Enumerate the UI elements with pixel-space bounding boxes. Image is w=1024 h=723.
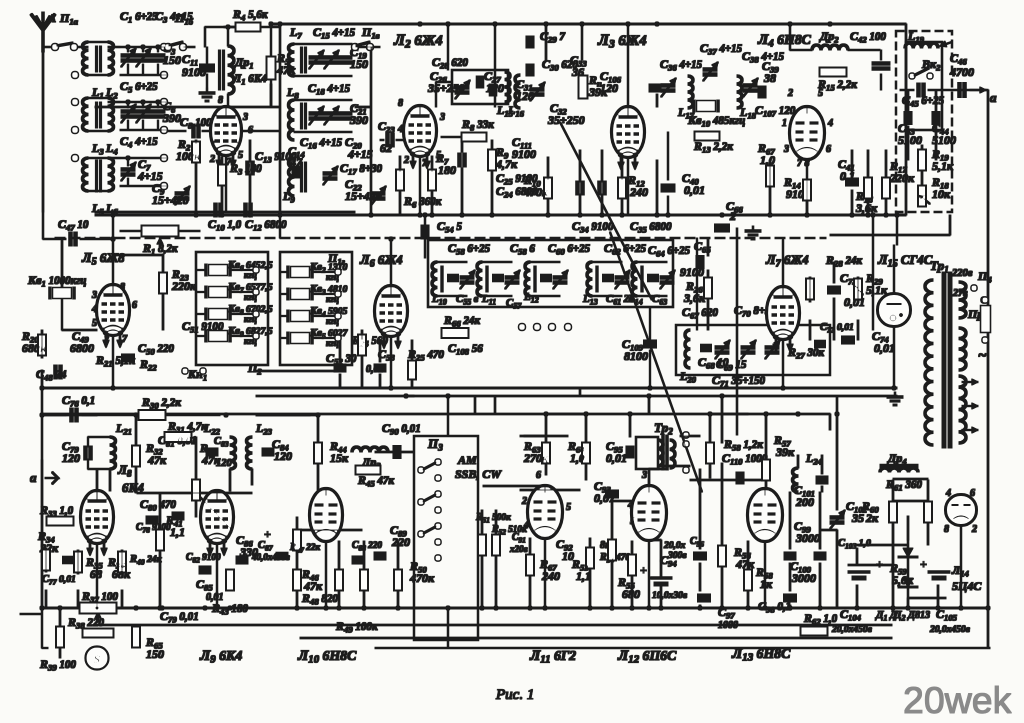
capacitor C52 [334, 366, 346, 371]
label R7 180 [435, 151, 449, 167]
wire [88, 157, 108, 159]
junction [278, 213, 282, 217]
svg-text:5,1к: 5,1к [932, 159, 954, 173]
junction [134, 606, 138, 610]
label Rп 39к [588, 73, 602, 89]
terminal [335, 269, 340, 274]
label R62 1,0 [803, 611, 838, 627]
wire [230, 335, 253, 337]
wire [656, 94, 658, 107]
label R63v [523, 451, 549, 465]
wire [544, 538, 546, 608]
capacitor C23 [388, 133, 393, 147]
resistor R67b [527, 555, 534, 575]
label C85 0,01 [196, 577, 213, 593]
capacitor C77 [63, 558, 74, 562]
label Кв1 1000кгц [27, 273, 86, 289]
terminal [335, 335, 340, 340]
svg-text:35÷250: 35÷250 [427, 81, 465, 95]
label C14v [289, 155, 303, 169]
coil L5 [83, 158, 89, 191]
capacitor C85 [199, 568, 211, 573]
svg-text:C42 100: C42 100 [850, 29, 886, 45]
terminal [435, 459, 440, 464]
svg-text:R39 100: R39 100 [39, 657, 76, 673]
wire [680, 435, 700, 437]
wire [41, 330, 43, 358]
resistor R44 [315, 443, 322, 463]
resistor R30 [139, 411, 165, 420]
junction [324, 606, 328, 610]
wire [927, 480, 929, 501]
svg-text:3,6к: 3,6к [683, 291, 706, 305]
label C82 9100 [186, 552, 221, 565]
label C109 8100 [622, 337, 644, 353]
svg-text:5Ц4С: 5Ц4С [952, 579, 982, 593]
junction [278, 22, 282, 26]
wire [379, 340, 381, 362]
label C46v [949, 65, 974, 79]
wire [195, 162, 197, 215]
junction [95, 606, 99, 610]
label C50 220 [138, 341, 174, 357]
capacitor C110 [738, 472, 743, 484]
wire [399, 190, 401, 215]
label кгц2 3 [326, 294, 339, 304]
label L21 [115, 421, 132, 437]
svg-text:390: 390 [349, 113, 368, 127]
junction [788, 22, 792, 26]
capacitor C81 [172, 514, 184, 519]
label Л4 6Н8С [757, 32, 812, 50]
label C28 620 [432, 55, 468, 71]
junction [871, 213, 875, 217]
resistor R36 [119, 552, 126, 572]
svg-text:5: 5 [818, 88, 823, 99]
resistor R57 [763, 460, 770, 480]
resistor R18 [918, 186, 930, 206]
junction [40, 413, 44, 417]
svg-text:4: 4 [397, 124, 403, 135]
label R1 8,2к [142, 241, 178, 257]
svg-text:Л10 6Н8С: Л10 6Н8С [297, 648, 357, 666]
box quartz bank 2 [280, 252, 352, 365]
wire [80, 238, 113, 240]
junction [746, 606, 750, 610]
resistor R24 [359, 335, 366, 355]
label L18 [739, 105, 757, 121]
resistor Rп [579, 76, 587, 98]
junction [528, 606, 532, 610]
label Кв10 485кгц [687, 113, 745, 129]
wire [662, 465, 690, 467]
svg-text:220к: 220к [171, 279, 197, 293]
label R32v [147, 453, 167, 467]
svg-text:20,0х: 20,0х [663, 541, 686, 551]
label Л12 6П6С bottom [617, 648, 677, 666]
capacitor C40 [661, 186, 675, 191]
box IF1 tank [452, 70, 508, 104]
label C32 35÷250 [550, 101, 567, 117]
label Л7 6Ж4 [765, 253, 809, 270]
svg-text:120: 120 [62, 451, 80, 465]
junction [580, 22, 584, 26]
ground top right [887, 392, 903, 405]
label C93 0,07 [594, 479, 611, 495]
junction [986, 606, 990, 610]
svg-text:C67 620: C67 620 [682, 305, 718, 321]
label R22 100к [139, 357, 157, 373]
svg-text:910: 910 [786, 187, 804, 201]
wire [42, 212, 44, 239]
label R46 47к [301, 567, 319, 583]
label C92v [562, 549, 574, 563]
svg-text:680: 680 [622, 587, 640, 601]
wire [667, 196, 669, 215]
label C97 1000 [718, 605, 735, 621]
wire [88, 130, 108, 132]
label C37 4÷15 [700, 41, 742, 57]
label R53 1,1 [571, 557, 589, 573]
label Кн1 [187, 367, 207, 383]
label Д1 Д2 Д813 [875, 609, 898, 623]
label C101 200 [794, 483, 815, 499]
label C39v [763, 71, 776, 85]
switch Вк2 blade [913, 68, 929, 76]
svg-text:38: 38 [763, 71, 776, 85]
switch П1б blade [168, 42, 183, 46]
label L16 [507, 103, 525, 119]
svg-text:1,0: 1,0 [760, 153, 775, 167]
junction [389, 386, 393, 390]
svg-text:3: 3 [242, 112, 248, 123]
label R16 3,6к [855, 189, 873, 205]
label R67 240 [539, 557, 557, 573]
label R2 100кv [176, 149, 201, 163]
terminal [565, 324, 571, 330]
svg-text:Кв1 1000кгц: Кв1 1000кгц [27, 273, 86, 289]
svg-text:C17 8÷30: C17 8÷30 [340, 161, 382, 177]
label C33v [571, 65, 584, 79]
wire [297, 529, 362, 531]
wire [520, 435, 568, 437]
svg-text:C81 0,01: C81 0,01 [158, 433, 197, 449]
junction [160, 606, 164, 610]
wire [893, 500, 928, 502]
label C26v [427, 81, 465, 95]
label Кв6 6452,5кгц [227, 260, 273, 273]
wire [77, 550, 79, 574]
label C83v [216, 458, 233, 469]
junction [446, 22, 450, 26]
svg-text:R8 33к: R8 33к [461, 117, 494, 133]
wire [447, 24, 449, 70]
label pin8 Л14 [944, 524, 949, 535]
wire [142, 47, 144, 52]
junction [316, 413, 320, 417]
label C64 6÷25 [648, 243, 690, 259]
coil L15 [505, 72, 510, 102]
wire [312, 315, 335, 317]
label Кв8 6702,5кгц [227, 304, 273, 317]
wire [836, 530, 838, 608]
wire [59, 608, 61, 627]
svg-text:20,0х450в: 20,0х450в [831, 625, 873, 635]
svg-text:8: 8 [398, 98, 403, 109]
label Л9 6К4 bottom [199, 648, 242, 666]
wire input box bottom [95, 211, 355, 213]
label Л5 6Ж8 [81, 251, 125, 268]
label Кв7 6577,5кгц [227, 282, 273, 295]
wire [61, 298, 63, 330]
label R12 240 [627, 173, 645, 189]
wire [280, 337, 288, 339]
wire [411, 379, 413, 388]
terminal [435, 539, 440, 544]
junction [446, 394, 450, 398]
label R6 360к [403, 194, 442, 210]
label R21 5,1к [95, 353, 135, 369]
label R48 820 [301, 591, 338, 607]
label tilde [978, 348, 987, 364]
terminal [435, 475, 440, 480]
wire [867, 200, 869, 215]
capacitor C72 [815, 342, 826, 346]
label C103 1,0 [838, 538, 871, 551]
coil L1 [83, 42, 89, 75]
wire [589, 538, 591, 548]
svg-text:4: 4 [945, 488, 951, 499]
junction [768, 213, 772, 217]
label C25 9100 [496, 171, 538, 187]
wire right top rail [905, 24, 907, 215]
junction [544, 412, 548, 416]
capacitor C100 [814, 554, 826, 559]
svg-text:3: 3 [91, 290, 97, 301]
label C79 120v [62, 451, 80, 465]
capacitor C101 [816, 478, 828, 483]
label C7 4÷15 [138, 157, 151, 173]
resistor R49res [361, 570, 368, 590]
svg-text:S: S [94, 652, 101, 666]
coil L21 [110, 437, 116, 469]
terminal [161, 72, 167, 78]
label R14 910 [783, 175, 801, 191]
label C94 10,0х30в [660, 553, 677, 569]
terminal [253, 311, 258, 316]
label R9 4,7кv [495, 157, 518, 171]
wire L19 arrow [940, 41, 952, 47]
trimmer C15a [309, 50, 324, 69]
wire bottom bus 4 [375, 647, 990, 649]
label pin2 Л2 [403, 155, 409, 166]
svg-text:2: 2 [521, 496, 527, 507]
svg-text:R3 180: R3 180 [229, 161, 262, 177]
svg-text:20,0х450в: 20,0х450в [929, 625, 971, 635]
junction [224, 413, 228, 417]
svg-text:C80 470: C80 470 [140, 497, 176, 513]
svg-text:C18 4÷15: C18 4÷15 [308, 81, 350, 97]
label R64v [570, 451, 585, 465]
wire [896, 215, 898, 245]
label C77 0,01 [42, 574, 76, 587]
label C100 3000 [790, 559, 812, 575]
coil L3 [83, 98, 89, 131]
label R67 240v [541, 569, 560, 583]
wire [312, 293, 335, 295]
terminal [161, 99, 167, 105]
wire [857, 544, 908, 546]
label C74 0,01 [872, 329, 889, 345]
terminal [72, 155, 78, 161]
junction [544, 22, 548, 26]
label R2 100к [177, 137, 191, 153]
wire [296, 517, 298, 530]
capacitor C39 [760, 86, 765, 98]
svg-text:47к: 47к [201, 453, 221, 467]
wire [721, 566, 723, 608]
wire [441, 136, 462, 138]
quartz Кв3 [288, 288, 312, 300]
wire [660, 584, 662, 608]
wire [937, 585, 939, 608]
label C108 56 [448, 341, 483, 357]
capacitor C83 [206, 450, 218, 455]
label C110 1000 [722, 451, 768, 467]
junction [666, 213, 670, 217]
wire [880, 50, 882, 60]
wire [59, 648, 61, 658]
label R33 1,0 [39, 503, 74, 519]
label pin2 Л11 [521, 496, 527, 507]
wire [43, 238, 66, 240]
label pin6 Л4 [826, 144, 831, 155]
wire [113, 254, 163, 256]
wire top HT bus [270, 23, 906, 25]
wire bus B3 [42, 413, 830, 415]
junction [111, 213, 115, 217]
label C41v [840, 169, 855, 183]
svg-text:3: 3 [641, 470, 647, 481]
label pin1 Л4 [782, 118, 787, 129]
wire [789, 492, 791, 549]
wire [82, 414, 139, 416]
wire [494, 24, 496, 107]
label R38 220 [67, 615, 104, 631]
resistor R26 [705, 278, 712, 298]
wire [806, 202, 808, 215]
resistor R66 [442, 329, 468, 338]
wire [241, 130, 280, 132]
wire [819, 563, 821, 608]
wire [696, 238, 698, 330]
label 300в [667, 551, 687, 561]
wire [482, 295, 512, 297]
capacitor C79a [86, 446, 91, 460]
label C111 9100 [512, 135, 532, 151]
wire [592, 261, 622, 263]
wire [109, 469, 111, 491]
junction [194, 213, 198, 217]
svg-text:R66 24к: R66 24к [443, 313, 480, 329]
junction [655, 213, 659, 217]
junction [620, 213, 624, 217]
resistor R3 [219, 165, 226, 185]
wire [270, 24, 272, 57]
label C94v [652, 591, 688, 601]
wire diagonal pointer 2 [610, 232, 702, 492]
svg-text:127в: 127в [948, 288, 968, 299]
wire [120, 230, 142, 232]
label R13 2,2к [693, 139, 733, 155]
tube Л9 6К4 [201, 491, 233, 556]
wire [648, 396, 650, 414]
svg-text:C77 0,01: C77 0,01 [42, 574, 76, 587]
svg-text:+: + [640, 563, 647, 577]
label C85v [206, 592, 224, 603]
wire [437, 261, 467, 263]
label L12 [523, 291, 539, 305]
svg-text:C60 6÷25: C60 6÷25 [548, 241, 590, 257]
label C34 9100 [572, 219, 614, 235]
terminal [180, 44, 186, 50]
label П1в [361, 25, 380, 41]
wire [370, 46, 380, 48]
label 0,01 [366, 364, 384, 375]
wire sec arrow1 [962, 379, 978, 385]
junction [647, 394, 651, 398]
capacitor C74 [842, 338, 855, 343]
label L19 [907, 29, 925, 45]
capacitor C41 [846, 180, 859, 185]
capacitor C14 [294, 166, 299, 178]
wire [601, 150, 603, 182]
core [641, 266, 643, 292]
wire [227, 94, 229, 107]
label C49v [70, 341, 94, 355]
wire [851, 190, 853, 215]
svg-text:кгц: кгц [244, 314, 257, 324]
resistor R14 [804, 180, 811, 200]
label L22 [203, 421, 221, 437]
wire [294, 131, 352, 133]
svg-text:6: 6 [826, 144, 831, 155]
label pin7 Л2 [422, 158, 428, 169]
junction [818, 606, 822, 610]
label C102 35 [846, 499, 868, 515]
label C84 120 [272, 437, 289, 453]
label Л1 6К4 [232, 71, 267, 87]
svg-text:47к: 47к [735, 557, 755, 571]
svg-text:680к: 680к [22, 341, 47, 355]
junction [788, 606, 792, 610]
wire [137, 492, 217, 494]
wire [256, 370, 345, 372]
svg-text:C35 6800: C35 6800 [630, 219, 672, 235]
label C47 10 [58, 217, 89, 233]
svg-text:R21 5,1к: R21 5,1к [95, 353, 135, 369]
resistor R56 [719, 546, 726, 566]
wire [921, 172, 923, 186]
label R34 22к [37, 529, 55, 545]
label C89 220 [390, 523, 407, 539]
svg-text:кгц: кгц [326, 294, 339, 304]
wire [121, 590, 123, 608]
switch П1а blade [56, 43, 73, 46]
wire [206, 74, 208, 88]
svg-text:47к: 47к [147, 453, 167, 467]
capacitor C80 [146, 518, 158, 523]
